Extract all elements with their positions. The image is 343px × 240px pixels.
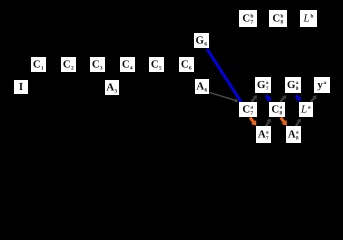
svg-text:2: 2 xyxy=(71,65,74,71)
svg-text:8: 8 xyxy=(296,86,299,92)
svg-text:7: 7 xyxy=(266,136,269,142)
svg-text:G: G xyxy=(196,34,205,46)
svg-text:6: 6 xyxy=(189,65,192,71)
svg-text:A: A xyxy=(258,128,266,140)
svg-text:C: C xyxy=(122,58,130,70)
svg-text:3: 3 xyxy=(115,88,118,94)
svg-text:C: C xyxy=(242,103,250,115)
svg-text:G: G xyxy=(257,79,266,91)
svg-text:C: C xyxy=(92,58,100,70)
svg-text:6: 6 xyxy=(204,41,207,47)
svg-text:A: A xyxy=(288,128,296,140)
svg-text:C: C xyxy=(271,103,279,115)
svg-text:L: L xyxy=(302,12,309,24)
svg-text:7: 7 xyxy=(251,20,254,26)
svg-text:a: a xyxy=(324,80,327,86)
svg-text:1: 1 xyxy=(41,65,44,71)
svg-text:3: 3 xyxy=(100,65,103,71)
svg-text:C: C xyxy=(242,12,250,24)
svg-text:C: C xyxy=(33,58,41,70)
svg-text:6: 6 xyxy=(205,87,208,93)
svg-text:8: 8 xyxy=(280,111,283,117)
svg-text:A: A xyxy=(196,80,204,92)
svg-text:5: 5 xyxy=(159,65,162,71)
svg-text:C: C xyxy=(181,58,189,70)
svg-text:4: 4 xyxy=(130,65,133,71)
svg-text:A: A xyxy=(106,81,114,93)
svg-text:b: b xyxy=(310,14,313,20)
svg-text:y: y xyxy=(317,79,323,91)
svg-text:C: C xyxy=(272,12,280,24)
svg-text:7: 7 xyxy=(251,111,254,117)
svg-text:8: 8 xyxy=(281,20,284,26)
svg-text:I: I xyxy=(19,81,23,93)
svg-text:8: 8 xyxy=(296,136,299,142)
svg-text:7: 7 xyxy=(266,86,269,92)
svg-text:L: L xyxy=(300,103,307,115)
svg-text:C: C xyxy=(151,58,159,70)
svg-text:C: C xyxy=(63,58,71,70)
svg-text:a: a xyxy=(308,105,311,111)
svg-text:G: G xyxy=(287,79,296,91)
